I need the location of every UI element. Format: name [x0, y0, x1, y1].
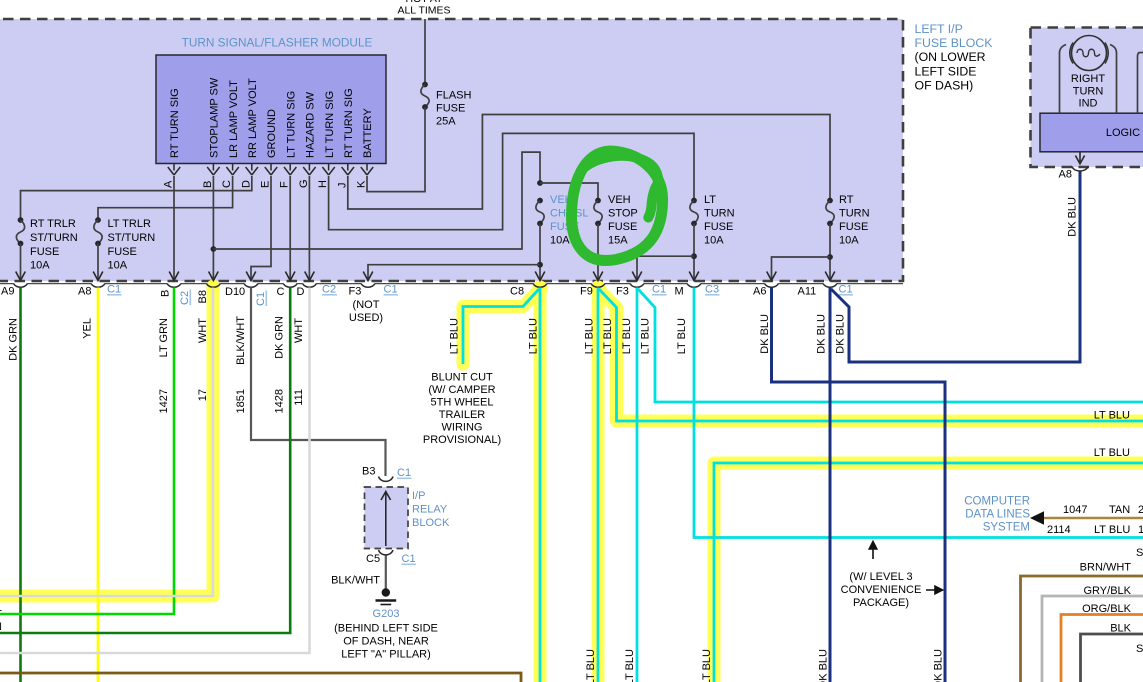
- svg-text:DK BLU: DK BLU: [835, 314, 847, 354]
- connector C5 cup: [379, 550, 394, 555]
- left I/P fuse block dashed box (right side): [1031, 28, 1143, 168]
- wire GRY/BLK lower right: [1042, 596, 1143, 682]
- label LT BLU (F9 wire): [584, 318, 596, 354]
- svg-text:C1: C1: [384, 284, 398, 296]
- I/P relay block box: [365, 487, 409, 549]
- second bulb (clipped at right edge): [1138, 53, 1143, 114]
- connector link label C2 (D): [322, 284, 337, 296]
- wire pin H to LT TURN fuse: [329, 133, 694, 229]
- svg-text:DK BLU: DK BLU: [818, 649, 830, 682]
- svg-text:GRY/BLK: GRY/BLK: [1084, 585, 1132, 597]
- module pin H label LT TURN SIG: [324, 91, 336, 158]
- svg-text:C5: C5: [366, 553, 380, 565]
- module pin G label HAZARD SW: [305, 91, 317, 158]
- node junction above veh chmsl fuse: [537, 180, 543, 186]
- label WHT (B8 wire): [197, 318, 209, 343]
- svg-text:DK BLU: DK BLU: [1067, 197, 1079, 237]
- bottom label DK BLU (wire 829): [818, 649, 830, 682]
- wire pin J to RT TURN fuse: [348, 115, 830, 210]
- svg-text:VEH: VEH: [608, 194, 631, 206]
- svg-text:TURN: TURN: [704, 208, 735, 220]
- connector A8 cup (logic): [1072, 167, 1088, 172]
- arrow from logic box to A8: [1075, 152, 1084, 164]
- connector link label C1 (D10, rotated): [255, 291, 267, 307]
- svg-text:FUSE BLOCK: FUSE BLOCK: [915, 36, 994, 50]
- wire BLK/WHT circuit 1851 from D10 to I/P relay block: [251, 288, 386, 477]
- label LEFT I/P FUSE BLOCK (ON LOWER LEFT SIDE OF DASH): [915, 22, 994, 93]
- label LT BLU (C8 wire): [528, 318, 540, 354]
- label RT TRLR ST/TURN FUSE 10A: [30, 218, 78, 272]
- svg-text:FUSE: FUSE: [608, 221, 637, 233]
- bottom label LT BLU (wire 598): [585, 649, 597, 682]
- svg-text:LT GRN: LT GRN: [158, 318, 170, 357]
- label DK BLU (logic A8 wire): [1067, 197, 1079, 237]
- svg-text:BLOCK: BLOCK: [412, 517, 450, 529]
- turn signal/flasher module fuse-block outer dashed box: [0, 19, 903, 281]
- module pin J label RT TURN SIG: [343, 88, 355, 158]
- highlight marker on LT BLU branch from F9 to right: [599, 290, 1143, 421]
- wire BRN/WHT lower right: [1021, 576, 1143, 682]
- svg-text:USED): USED): [349, 312, 383, 324]
- svg-text:1: 1: [1138, 524, 1143, 536]
- svg-text:BLK: BLK: [1110, 623, 1131, 635]
- module pin G: [298, 164, 316, 189]
- svg-text:LT BLU: LT BLU: [1094, 410, 1130, 422]
- wire flash fuse to pin K (battery): [367, 107, 425, 192]
- label A8 (logic): [1059, 169, 1072, 181]
- svg-text:LT BLU: LT BLU: [676, 318, 688, 354]
- svg-text:F3: F3: [349, 286, 362, 298]
- module pin K label BATTERY: [362, 108, 374, 158]
- svg-text:PACKAGE): PACKAGE): [853, 597, 909, 609]
- svg-text:10A: 10A: [839, 235, 859, 247]
- label BLK: [1110, 623, 1131, 635]
- module pin D label RR LAMP VOLT: [247, 78, 259, 158]
- svg-text:K: K: [356, 180, 368, 188]
- label DK GRN (C wire): [274, 316, 286, 359]
- label (NOT USED): [349, 299, 383, 324]
- svg-text:G203: G203: [373, 608, 400, 620]
- svg-text:10A: 10A: [550, 235, 570, 247]
- svg-text:RT TRLR: RT TRLR: [30, 218, 76, 230]
- highlight marker on LT BLU wire from C8: [533, 281, 548, 682]
- svg-text:C1: C1: [107, 284, 121, 296]
- wire from HOT AT ALL TIMES feed down to flash fuse: [424, 19, 426, 85]
- label RT TURN FUSE 10A: [839, 194, 870, 247]
- label FLASH FUSE 25A: [436, 90, 472, 128]
- connector link label C1 (A8): [107, 284, 122, 296]
- connector arrow and cup at x=290.2: [283, 272, 297, 288]
- svg-text:(W/ CAMPER: (W/ CAMPER: [428, 384, 495, 396]
- svg-text:2114: 2114: [1047, 524, 1071, 536]
- label DK BLU (C1 wire): [835, 314, 847, 354]
- svg-text:E: E: [260, 181, 272, 188]
- svg-text:LT TURN SIG: LT TURN SIG: [285, 91, 297, 158]
- svg-text:RT TURN SIG: RT TURN SIG: [343, 88, 355, 158]
- note (W/ LEVEL 3 CONVENIENCE PACKAGE) with arrows: [841, 542, 943, 610]
- label GRY/BLK: [1084, 585, 1132, 597]
- label G203: [373, 608, 400, 620]
- svg-text:DK BLU: DK BLU: [933, 649, 945, 682]
- svg-text:LR LAMP VOLT: LR LAMP VOLT: [228, 80, 240, 158]
- svg-text:TAN: TAN: [1109, 504, 1130, 516]
- connector arrow and cup at x=251: [244, 272, 258, 288]
- svg-text:LT: LT: [704, 194, 716, 206]
- wire LT BLU from F9 down: [597, 288, 600, 682]
- arrow to computer data lines system: [1030, 511, 1044, 524]
- wire DK BLU from C1 to logic A8: [831, 171, 1080, 362]
- wire LT BLU blunt cut branch: [463, 289, 539, 364]
- left edge label fragment 1: [0, 602, 2, 614]
- connector label D: [297, 286, 305, 298]
- left edge label fragment N: [0, 621, 2, 633]
- svg-text:STOP: STOP: [608, 208, 638, 220]
- label LT BLU (elbow 463): [1094, 447, 1130, 459]
- label DK BLU (A6 wire): [759, 314, 771, 354]
- svg-text:DK GRN: DK GRN: [8, 318, 20, 361]
- wire BLK/WHT from C5 to ground: [385, 556, 387, 590]
- label (BEHIND LEFT SIDE OF DASH, NEAR LEFT A PILLAR): [334, 623, 438, 661]
- svg-text:1047: 1047: [1063, 504, 1087, 516]
- svg-text:111: 111: [293, 389, 305, 406]
- svg-text:LT BLU: LT BLU: [621, 318, 633, 354]
- svg-text:OF DASH): OF DASH): [915, 79, 974, 93]
- svg-text:A: A: [163, 180, 175, 188]
- connector label M: [675, 286, 684, 298]
- fuse LT TURN FUSE 10A: [690, 198, 698, 281]
- module pin A label RT TURN SIG: [169, 88, 181, 158]
- connector arrow and cup at x=540: [533, 272, 547, 288]
- svg-text:LT BLU: LT BLU: [449, 318, 461, 354]
- svg-text:1427: 1427: [158, 389, 170, 413]
- svg-text:D: D: [240, 180, 252, 188]
- label circuit 1427: [158, 389, 170, 413]
- svg-text:TURN: TURN: [839, 208, 870, 220]
- label ORG/BLK: [1082, 603, 1132, 615]
- module pin F label LT TURN SIG: [285, 91, 297, 158]
- label VEH STOP FUSE 15A: [608, 194, 638, 247]
- svg-text:F3: F3: [616, 286, 629, 298]
- svg-text:D: D: [297, 286, 305, 298]
- fuse VEH CHMSL FUSE 10A: [536, 198, 544, 281]
- module pin H: [317, 164, 335, 189]
- svg-text:WHT: WHT: [293, 318, 305, 343]
- right turn indicator bulb: [1070, 36, 1109, 71]
- svg-text:ALL TIMES: ALL TIMES: [397, 5, 450, 17]
- fuse RT TRLR ST/TURN FUSE 10A: [16, 217, 24, 280]
- label RIGHT TURN IND: [1071, 73, 1106, 110]
- connector arrow and cup at x=637: [630, 272, 644, 288]
- fuse VEH STOP FUSE 15A: [594, 198, 602, 281]
- label LT BLU (F9 branch wire): [602, 318, 614, 354]
- label I/P RELAY BLOCK: [412, 490, 450, 529]
- svg-text:(BEHIND LEFT SIDE: (BEHIND LEFT SIDE: [334, 623, 438, 635]
- connector arrow and cup at x=98: [91, 272, 105, 288]
- connector label D10: [225, 286, 245, 298]
- svg-text:C1: C1: [839, 284, 853, 296]
- svg-text:BLUNT CUT: BLUNT CUT: [431, 372, 493, 384]
- svg-text:(ON LOWER: (ON LOWER: [915, 50, 986, 64]
- bulb wires to logic box: [1060, 45, 1117, 114]
- svg-text:LEFT SIDE: LEFT SIDE: [915, 64, 977, 78]
- svg-text:LT BLU: LT BLU: [528, 318, 540, 354]
- wire DK BLU from A6: [772, 288, 946, 682]
- bottom label DK BLU (wire 944): [933, 649, 945, 682]
- wire pin B branch to veh fuses: [213, 152, 540, 249]
- svg-text:15A: 15A: [608, 235, 628, 247]
- label LT GRN (B wire): [158, 318, 170, 357]
- pink link fragment lower: [1136, 643, 1143, 655]
- bottom label LT BLU (wire 714): [701, 649, 713, 682]
- node junction below veh chmsl fuse: [537, 262, 543, 268]
- connector arrow and cup at x=771.5: [765, 272, 779, 288]
- connector arrow and cup at x=20.5: [14, 272, 28, 288]
- wire BRN across bottom: [0, 673, 521, 682]
- label BRN/WHT: [1080, 562, 1132, 574]
- pink link fragment upper: [1136, 547, 1143, 559]
- svg-text:F9: F9: [580, 286, 593, 298]
- label circuit 1851: [235, 389, 247, 413]
- svg-text:A11: A11: [798, 286, 817, 298]
- svg-text:LT BLU: LT BLU: [640, 318, 652, 354]
- connector label B8 (rotated): [197, 290, 209, 303]
- svg-text:DK BLU: DK BLU: [759, 314, 771, 354]
- label LT BLU (F3 wire): [621, 318, 633, 354]
- svg-text:C2: C2: [179, 291, 191, 305]
- label BLUNT CUT (W/ CAMPER 5TH WHEEL TRAILER WIRING PROVISIONAL): [423, 372, 501, 447]
- module pin E label GROUND: [266, 109, 278, 158]
- connector arrow and cup at x=368: [361, 272, 375, 288]
- svg-text:LOGIC: LOGIC: [1106, 127, 1140, 139]
- svg-text:FLASH: FLASH: [436, 90, 472, 102]
- connector label A6: [753, 286, 766, 298]
- svg-text:2: 2: [1138, 504, 1143, 516]
- svg-text:RT: RT: [839, 194, 854, 206]
- connector label C8: [510, 286, 524, 298]
- svg-text:S: S: [1136, 643, 1143, 655]
- module pin D: [240, 164, 258, 189]
- wire pin E to connector D10: [251, 176, 271, 281]
- svg-text:LT BLU: LT BLU: [585, 649, 597, 682]
- wire branch to connector F3 not used: [368, 265, 540, 281]
- svg-text:B3: B3: [362, 466, 375, 478]
- svg-text:C: C: [277, 286, 285, 298]
- wire BLK lower right: [1081, 634, 1143, 682]
- module pin K: [356, 164, 374, 189]
- wire TAN circuit 1047 computer data lines: [1043, 517, 1143, 520]
- svg-text:CONVENIENCE: CONVENIENCE: [841, 584, 922, 596]
- link label C1 (C5): [402, 553, 417, 565]
- svg-text:WIRING: WIRING: [442, 422, 483, 434]
- svg-text:LT TURN SIG: LT TURN SIG: [324, 91, 336, 158]
- svg-text:DK GRN: DK GRN: [274, 316, 286, 359]
- connector label A9: [1, 286, 14, 298]
- svg-text:OF DASH, NEAR: OF DASH, NEAR: [343, 636, 429, 648]
- svg-text:IND: IND: [1079, 98, 1098, 110]
- module pin C: [221, 164, 239, 189]
- svg-text:HAZARD SW: HAZARD SW: [305, 91, 317, 158]
- svg-text:LT BLU: LT BLU: [602, 318, 614, 354]
- label LT TURN FUSE 10A: [704, 194, 735, 247]
- module pin F: [279, 164, 297, 189]
- module pin B label STOPLAMP SW: [209, 77, 221, 158]
- svg-text:RT TURN SIG: RT TURN SIG: [169, 88, 181, 158]
- wire LT BLU elbow lower right: [714, 463, 1143, 682]
- label DK GRN (A9 wire): [8, 318, 20, 361]
- svg-text:BLK/WHT: BLK/WHT: [331, 575, 380, 587]
- connector label F9: [580, 286, 593, 298]
- svg-text:BLK/WHT: BLK/WHT: [235, 316, 247, 365]
- label LT BLU (F3 branch wire): [640, 318, 652, 354]
- svg-text:1428: 1428: [274, 389, 286, 413]
- connector arrow and cup at x=213.4: [206, 272, 220, 288]
- arrow inside I/P relay block: [381, 492, 391, 547]
- svg-text:10A: 10A: [108, 260, 128, 272]
- svg-text:25A: 25A: [436, 116, 456, 128]
- svg-text:10A: 10A: [704, 235, 724, 247]
- wire YEL from A8: [97, 288, 100, 682]
- svg-text:COMPUTER: COMPUTER: [964, 496, 1030, 508]
- svg-text:(W/ LEVEL 3: (W/ LEVEL 3: [849, 571, 912, 583]
- svg-text:N: N: [0, 621, 2, 633]
- svg-text:B8: B8: [197, 290, 209, 303]
- svg-text:RELAY: RELAY: [412, 504, 448, 516]
- label LT BLU (M wire): [676, 318, 688, 354]
- svg-text:LEFT I/P: LEFT I/P: [915, 22, 963, 36]
- highlight marker on LT BLU elbow wire lower right: [714, 463, 1143, 682]
- svg-text:G: G: [298, 179, 310, 188]
- wire LT BLU branch F9 elbow to right edge: [599, 289, 1143, 421]
- svg-text:C8: C8: [510, 286, 524, 298]
- link label C1 (B3): [397, 467, 412, 479]
- svg-text:1851: 1851: [235, 389, 247, 413]
- svg-text:C3: C3: [705, 284, 719, 296]
- highlight marker on LT BLU wire from F9: [591, 281, 606, 682]
- connector label F3 (not used): [349, 286, 362, 298]
- wire branch RT TURN fuse to connector A6: [772, 257, 831, 281]
- highlight marker on WHT wire circuit 17: [0, 281, 220, 597]
- turn signal/flasher module inner box: [156, 55, 386, 164]
- connector strip line along bottom edge: [0, 283, 903, 285]
- label HOT AT ALL TIMES (clipped at top): [397, 0, 450, 17]
- wire pin A to connector B: [173, 176, 175, 281]
- svg-text:F: F: [279, 181, 291, 188]
- label BLK/WHT (ground wire): [331, 575, 380, 587]
- wire WHT circuit 17 from B8: [0, 288, 213, 597]
- connector label C: [277, 286, 285, 298]
- wire branch LT TURN fuse to connector F3: [637, 256, 694, 280]
- connector label F3: [616, 286, 629, 298]
- wire DK GRN circuit 1428 from C: [0, 288, 290, 634]
- svg-text:FUSE: FUSE: [108, 246, 137, 258]
- connector arrow and cup at x=830: [823, 272, 837, 288]
- svg-text:DK BLU: DK BLU: [816, 314, 828, 354]
- svg-text:LT BLU: LT BLU: [624, 649, 636, 682]
- wire pin B to connector B8: [212, 176, 214, 281]
- svg-text:BRN/WHT: BRN/WHT: [1080, 562, 1132, 574]
- svg-text:LT BLU: LT BLU: [1094, 447, 1130, 459]
- connector link label C1 (F3 second): [652, 284, 667, 296]
- connector arrow and cup at x=694: [687, 272, 701, 288]
- svg-text:BATTERY: BATTERY: [362, 108, 374, 158]
- label C5: [366, 553, 380, 565]
- svg-text:LT BLU: LT BLU: [1094, 524, 1130, 536]
- connector arrow and cup at x=309.5: [303, 272, 317, 288]
- svg-text:WHT: WHT: [197, 318, 209, 343]
- svg-text:YEL: YEL: [82, 318, 94, 339]
- wire pin F to connector C: [289, 176, 291, 281]
- label DK BLU (A11 wire): [816, 314, 828, 354]
- module pin A: [163, 164, 181, 189]
- svg-text:C2: C2: [322, 284, 336, 296]
- wire pin G to connector D: [308, 176, 310, 281]
- module pin E: [260, 164, 278, 189]
- wire branch to veh stop fuse: [540, 183, 598, 201]
- svg-text:5TH WHEEL: 5TH WHEEL: [431, 397, 494, 409]
- svg-text:LT BLU: LT BLU: [584, 318, 596, 354]
- svg-text:ST/TURN: ST/TURN: [30, 232, 78, 244]
- connector link label C3 (M): [705, 284, 720, 296]
- ground symbol G203: [376, 588, 397, 604]
- wire ORG/BLK lower right: [1061, 615, 1143, 682]
- svg-text:TURN SIGNAL/FLASHER MODULE: TURN SIGNAL/FLASHER MODULE: [182, 36, 373, 50]
- svg-text:TRAILER: TRAILER: [439, 409, 486, 421]
- connector arrow and cup at x=174: [167, 272, 181, 288]
- highlight marker on LT BLU blunt cut branch: [463, 291, 538, 364]
- node junction on pin B wire: [211, 246, 217, 252]
- svg-text:A9: A9: [1, 286, 14, 298]
- svg-text:1: 1: [0, 602, 2, 614]
- wire LT BLU branch F3 elbow to right edge: [638, 289, 1143, 402]
- svg-text:17: 17: [197, 389, 209, 401]
- label circuit 1428: [274, 389, 286, 413]
- label VEH CHMSL FUSE 10A: [550, 194, 589, 247]
- wire WHT circuit 111 from D: [0, 288, 310, 654]
- svg-text:TURN: TURN: [1073, 85, 1104, 97]
- module pin C label LR LAMP VOLT: [228, 80, 240, 158]
- svg-text:I/P: I/P: [412, 490, 425, 502]
- svg-text:ORG/BLK: ORG/BLK: [1082, 603, 1132, 615]
- wire pin C to LT TRLR fuse: [98, 176, 233, 220]
- svg-text:GROUND: GROUND: [266, 109, 278, 158]
- connector label B (rotated): [160, 290, 172, 297]
- svg-text:DATA LINES: DATA LINES: [965, 509, 1030, 521]
- svg-text:M: M: [675, 286, 684, 298]
- svg-text:FUSE: FUSE: [436, 103, 465, 115]
- svg-text:C1: C1: [397, 467, 411, 479]
- label LT BLU (blunt cut branch): [449, 318, 461, 354]
- label COMPUTER DATA LINES SYSTEM: [964, 496, 1030, 534]
- svg-text:LT BLU: LT BLU: [701, 649, 713, 682]
- wire LT BLU from F3 down: [636, 288, 639, 682]
- label circuit 111: [293, 389, 305, 406]
- svg-text:LEFT "A" PILLAR): LEFT "A" PILLAR): [341, 649, 431, 661]
- fuse FLASH FUSE 25A: [421, 82, 429, 110]
- module pin J: [336, 164, 354, 189]
- label WHT (D wire): [293, 318, 305, 343]
- wire LT GRN circuit 1427 from B: [0, 288, 174, 615]
- connector label A8: [78, 286, 91, 298]
- label B3: [362, 466, 375, 478]
- connector link label C2 (B, rotated): [179, 290, 191, 306]
- wire DK GRN from A9: [19, 288, 22, 682]
- logic box: [1040, 113, 1143, 152]
- bottom label LT BLU (wire 637): [624, 649, 636, 682]
- svg-text:RR LAMP VOLT: RR LAMP VOLT: [247, 78, 259, 158]
- label circuit 17: [197, 389, 209, 401]
- green marker circle around VEH STOP FUSE 15A: [571, 151, 662, 261]
- label YEL (A8 wire): [82, 318, 94, 339]
